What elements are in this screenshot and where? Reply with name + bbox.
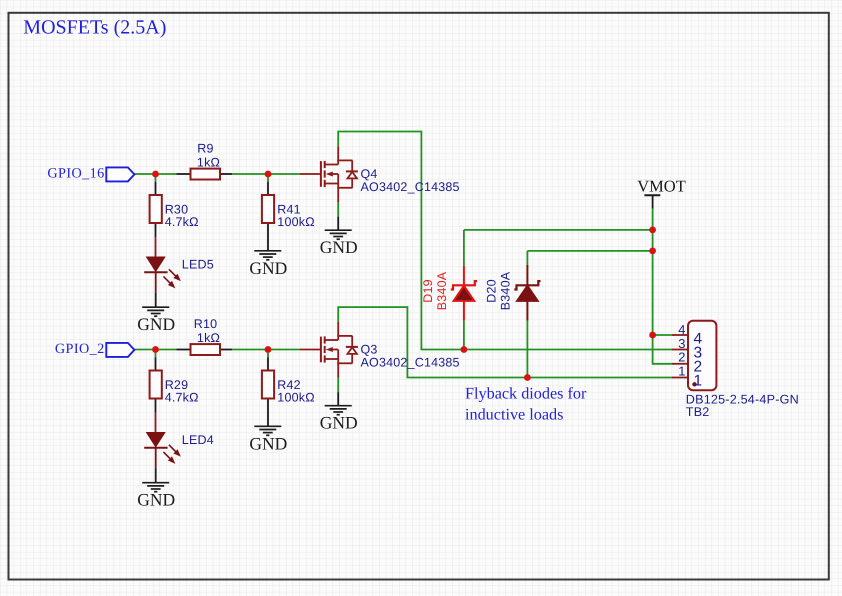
svg-text:MOSFETs (2.5A): MOSFETs (2.5A) xyxy=(23,17,166,39)
svg-text:100kΩ: 100kΩ xyxy=(277,215,314,229)
svg-text:1: 1 xyxy=(678,364,685,379)
svg-text:GND: GND xyxy=(249,433,287,453)
svg-text:1kΩ: 1kΩ xyxy=(197,155,220,169)
svg-text:AO3402_C14385: AO3402_C14385 xyxy=(361,356,460,370)
svg-text:LED4: LED4 xyxy=(182,433,214,447)
svg-text:3: 3 xyxy=(678,336,685,351)
svg-text:B340A: B340A xyxy=(499,271,513,310)
svg-text:1: 1 xyxy=(694,373,703,390)
svg-text:D19: D19 xyxy=(421,279,435,303)
svg-text:GND: GND xyxy=(137,314,175,334)
svg-text:AO3402_C14385: AO3402_C14385 xyxy=(361,180,460,194)
svg-text:B340A: B340A xyxy=(435,271,449,310)
svg-text:GND: GND xyxy=(137,490,175,510)
svg-text:TB2: TB2 xyxy=(686,405,710,419)
svg-text:R10: R10 xyxy=(194,317,218,331)
svg-text:R9: R9 xyxy=(197,142,213,156)
svg-text:2: 2 xyxy=(678,350,685,365)
svg-text:D20: D20 xyxy=(485,279,499,303)
svg-text:Q4: Q4 xyxy=(361,167,378,181)
svg-text:4.7kΩ: 4.7kΩ xyxy=(165,215,199,229)
svg-text:GND: GND xyxy=(249,258,287,278)
svg-text:Q3: Q3 xyxy=(361,343,378,357)
svg-text:100kΩ: 100kΩ xyxy=(277,390,314,404)
svg-text:4: 4 xyxy=(678,322,685,337)
svg-text:4.7kΩ: 4.7kΩ xyxy=(165,390,199,404)
svg-text:GPIO_16: GPIO_16 xyxy=(47,166,104,182)
svg-text:1kΩ: 1kΩ xyxy=(197,331,220,345)
svg-text:Flyback diodes for: Flyback diodes for xyxy=(465,384,587,402)
svg-text:GPIO_2: GPIO_2 xyxy=(55,341,105,357)
svg-text:inductive loads: inductive loads xyxy=(465,405,563,423)
svg-text:GND: GND xyxy=(320,413,358,433)
svg-text:GND: GND xyxy=(320,237,358,257)
svg-text:VMOT: VMOT xyxy=(637,177,686,196)
svg-text:LED5: LED5 xyxy=(182,258,214,272)
